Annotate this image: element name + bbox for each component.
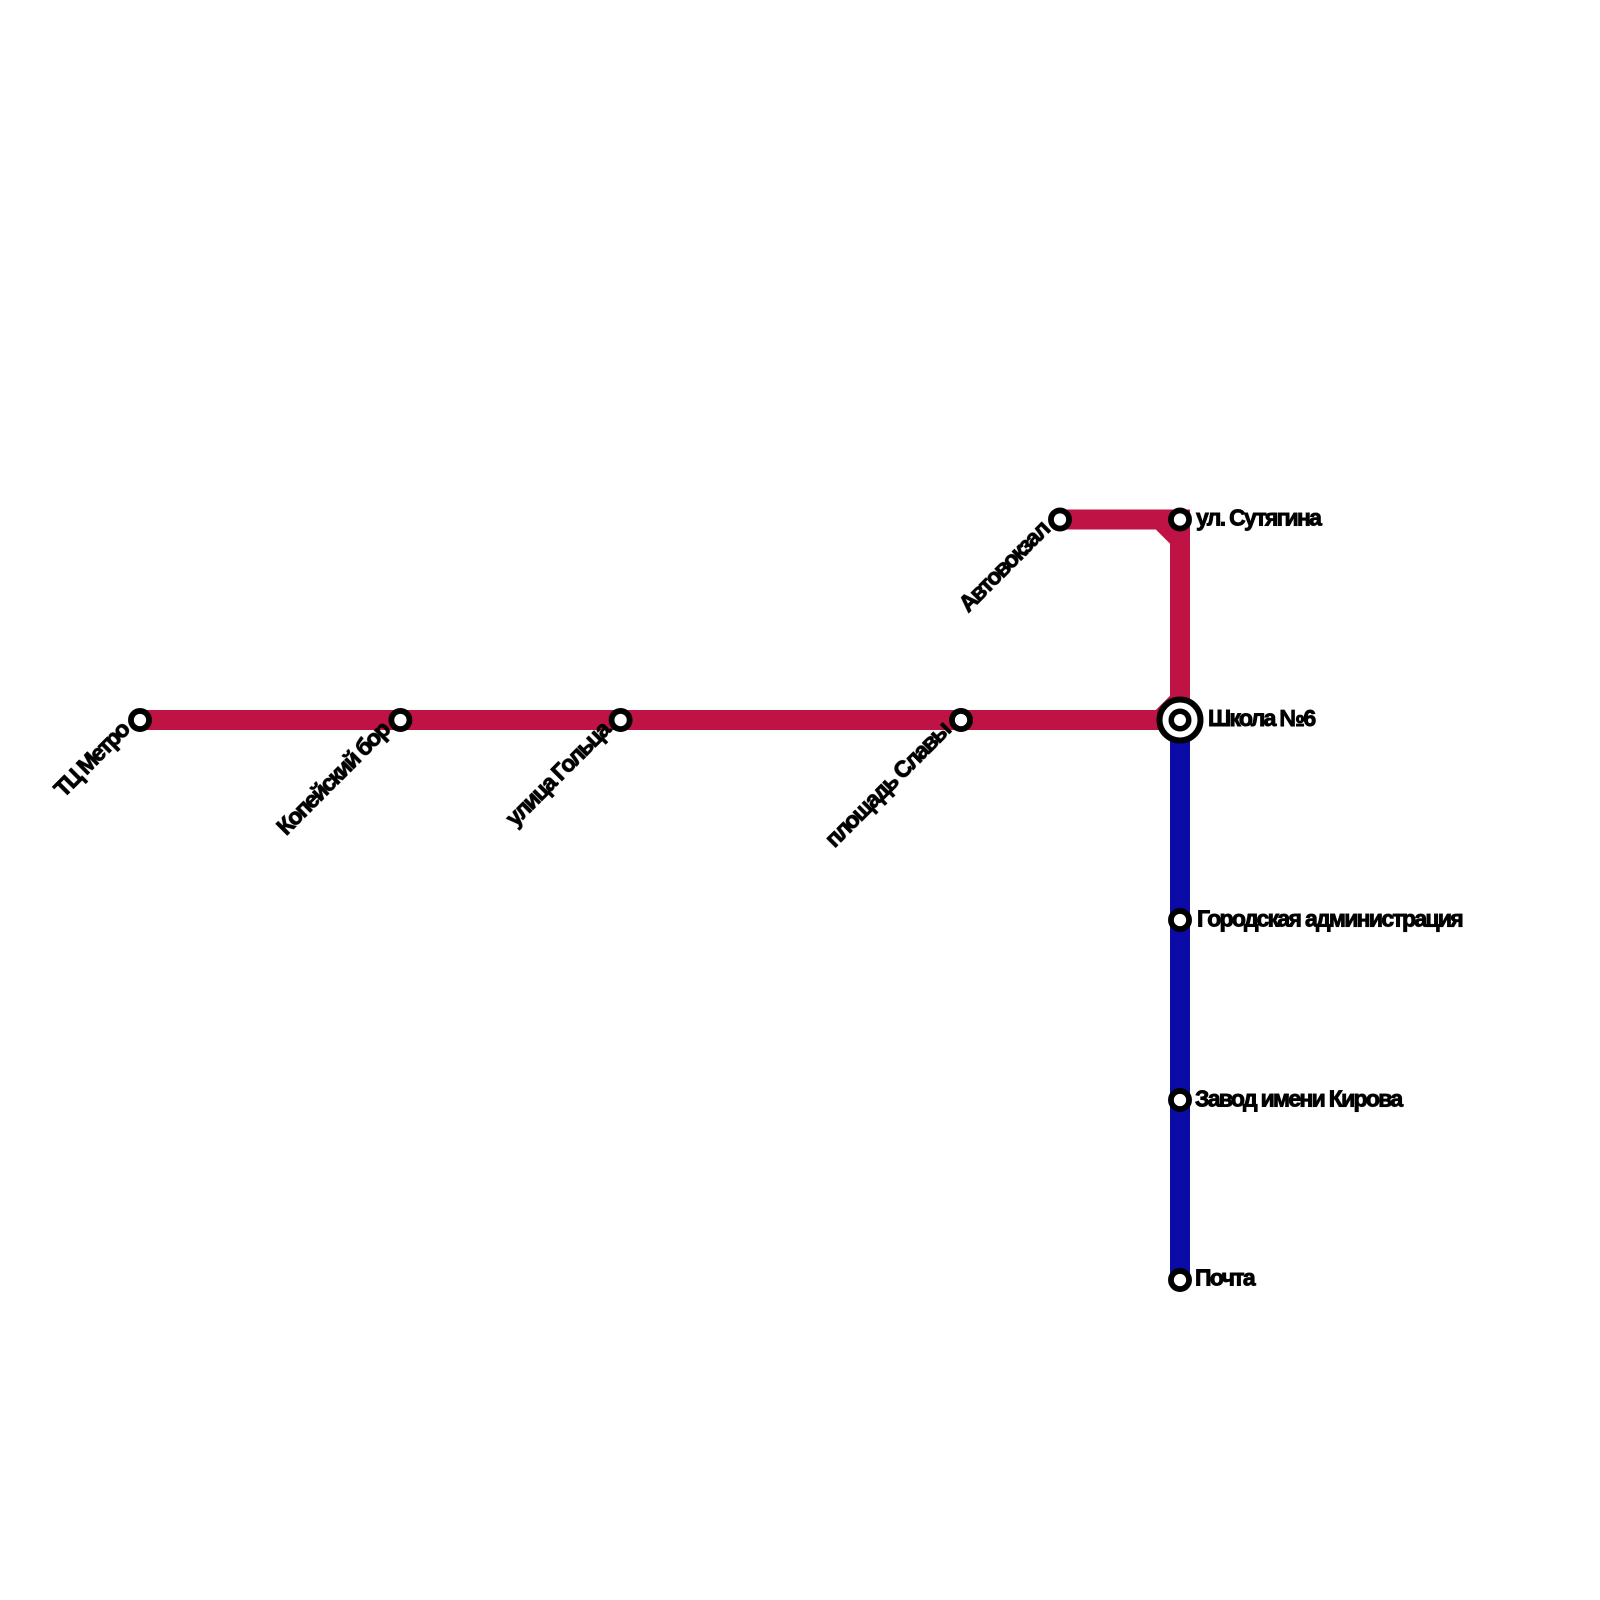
station ТЦ Метро [131, 711, 149, 729]
station Автовокзал [1051, 510, 1069, 528]
station ул. Сутягина [1171, 510, 1189, 528]
svg-text:Школа №6: Школа №6 [1208, 705, 1315, 731]
station Городская администрация [1171, 911, 1189, 929]
blue line route: Школа №6 - Почта [1170, 720, 1190, 1280]
svg-text:Городская администрация: Городская администрация [1197, 906, 1462, 932]
station Завод имени Кирова [1171, 1091, 1189, 1109]
red line route: ТЦ Метро - Школа №6 - ул. Сутягина - Автовокзал [140, 520, 1180, 721]
red line chamfer at Школа №6 corner [1160, 700, 1180, 720]
transfer station Школа №6 [1160, 700, 1201, 741]
svg-text:Почта: Почта [1195, 1265, 1256, 1291]
station площадь Славы [952, 711, 970, 729]
svg-text:Завод имени Кирова: Завод имени Кирова [1195, 1086, 1403, 1112]
station Почта [1171, 1271, 1189, 1289]
station улица Гольца [612, 711, 630, 729]
svg-text:ул. Сутягина: ул. Сутягина [1196, 505, 1322, 531]
station Копейский бор [391, 711, 409, 729]
red line chamfer at ул. Сутягина corner [1160, 520, 1180, 540]
